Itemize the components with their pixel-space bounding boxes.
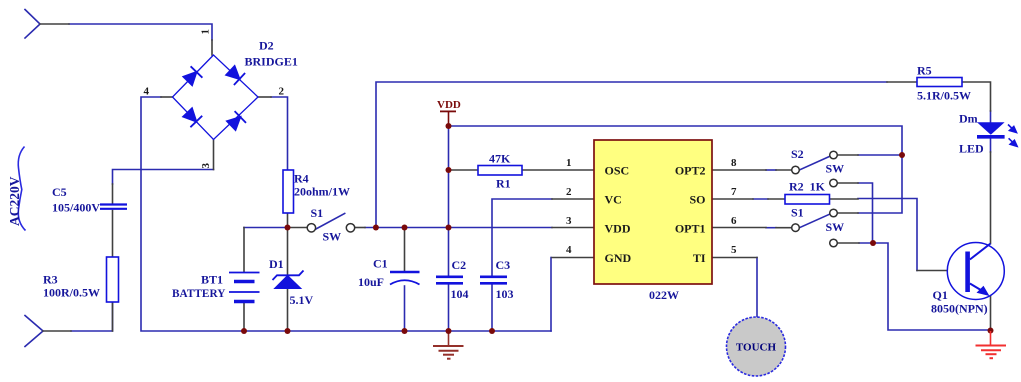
svg-text:VDD: VDD: [605, 222, 631, 236]
svg-text:AC220V: AC220V: [7, 176, 22, 226]
svg-text:8: 8: [731, 157, 737, 169]
svg-text:SW: SW: [826, 162, 845, 176]
svg-text:7: 7: [731, 186, 737, 198]
svg-text:R5: R5: [917, 64, 932, 78]
svg-text:VDD: VDD: [437, 99, 461, 111]
svg-text:105/400V: 105/400V: [52, 201, 100, 215]
svg-text:C3: C3: [496, 258, 511, 272]
svg-text:OPT1: OPT1: [675, 222, 706, 236]
svg-text:D2: D2: [259, 39, 274, 53]
svg-text:5: 5: [731, 244, 737, 256]
svg-text:SW: SW: [826, 220, 845, 234]
svg-text:SO: SO: [689, 193, 705, 207]
svg-text:1: 1: [566, 157, 572, 169]
svg-text:VC: VC: [605, 193, 622, 207]
svg-text:C5: C5: [52, 185, 67, 199]
svg-text:3: 3: [200, 163, 212, 169]
svg-text:R3: R3: [43, 273, 58, 287]
svg-text:R1: R1: [496, 177, 511, 191]
svg-text:47K: 47K: [489, 152, 511, 166]
svg-text:100R/0.5W: 100R/0.5W: [43, 286, 100, 300]
svg-text:2: 2: [279, 86, 285, 98]
svg-text:BATTERY: BATTERY: [172, 288, 225, 300]
svg-text:TI: TI: [693, 251, 706, 265]
svg-text:R2 1K: R2 1K: [789, 180, 826, 194]
svg-text:SW: SW: [323, 230, 342, 244]
svg-text:2: 2: [566, 186, 572, 198]
svg-text:104: 104: [451, 287, 469, 301]
svg-text:4: 4: [144, 86, 150, 98]
svg-text:S2: S2: [791, 147, 804, 161]
svg-text:103: 103: [496, 287, 514, 301]
svg-text:TOUCH: TOUCH: [736, 342, 777, 354]
svg-text:D1: D1: [269, 257, 284, 271]
svg-text:S1: S1: [311, 206, 324, 220]
svg-text:20ohm/1W: 20ohm/1W: [294, 185, 350, 199]
svg-text:C1: C1: [373, 257, 388, 271]
svg-text:5.1V: 5.1V: [290, 293, 314, 307]
svg-text:OSC: OSC: [605, 164, 630, 178]
svg-text:BT1: BT1: [201, 273, 223, 287]
svg-text:LED: LED: [959, 142, 984, 156]
svg-text:022W: 022W: [649, 288, 679, 302]
svg-text:GND: GND: [605, 251, 632, 265]
svg-text:R4: R4: [294, 172, 309, 186]
svg-text:6: 6: [731, 215, 737, 227]
svg-text:1: 1: [200, 29, 212, 35]
svg-text:4: 4: [566, 244, 572, 256]
svg-text:3: 3: [566, 215, 572, 227]
svg-text:Dm: Dm: [959, 112, 978, 126]
svg-text:10uF: 10uF: [358, 275, 384, 289]
svg-text:5.1R/0.5W: 5.1R/0.5W: [917, 89, 971, 103]
svg-text:C2: C2: [452, 258, 467, 272]
svg-text:BRIDGE1: BRIDGE1: [245, 55, 298, 69]
svg-text:S1: S1: [791, 206, 804, 220]
svg-text:OPT2: OPT2: [675, 164, 706, 178]
svg-text:Q1: Q1: [933, 288, 948, 302]
svg-text:8050(NPN): 8050(NPN): [931, 302, 988, 316]
